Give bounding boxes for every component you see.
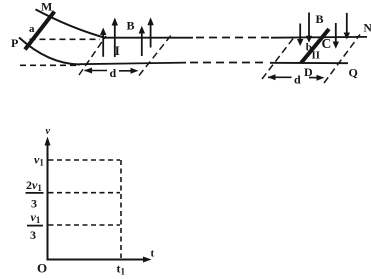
svg-text:d: d	[110, 66, 117, 80]
t axis	[47, 257, 152, 263]
dashed level line under top ramp	[30, 38, 101, 40]
dimension d left: right arrow	[119, 68, 139, 74]
rail P ramp curve (bottom rail left)	[19, 38, 80, 65]
fraction v1/3 bar	[27, 225, 43, 227]
svg-text:P: P	[11, 36, 18, 50]
svg-text:t: t	[151, 248, 155, 260]
field region II right boundary dashed	[324, 35, 360, 84]
rod b between C and D	[301, 29, 329, 63]
svg-text:C: C	[322, 36, 332, 51]
dashed level line 2v1/3	[49, 192, 121, 194]
svg-text:a: a	[29, 23, 35, 35]
fraction 2v1/3 bar	[26, 192, 44, 194]
field arrow up 4	[147, 17, 153, 47]
svg-text:v: v	[46, 126, 51, 137]
svg-text:M: M	[41, 0, 52, 14]
field region I left boundary dashed	[79, 36, 106, 75]
top rail dashed middle segment	[196, 37, 271, 39]
svg-text:B: B	[316, 12, 324, 26]
dashed vertical line at t1	[120, 160, 122, 258]
svg-text:Q: Q	[349, 66, 358, 80]
svg-text:I: I	[115, 43, 120, 58]
bottom rail dashed middle segment	[190, 62, 267, 64]
rod a on ramp	[25, 12, 54, 50]
bottom rail solid right segment ending near Q	[270, 62, 348, 64]
svg-text:3: 3	[30, 228, 36, 242]
dashed level line v1	[49, 159, 121, 161]
svg-text:II: II	[312, 50, 321, 62]
field region I right boundary dashed	[139, 34, 172, 76]
dimension d left: left arrow	[84, 68, 107, 74]
field region II left boundary dashed	[262, 36, 295, 79]
svg-text:d: d	[294, 73, 301, 87]
field arrow down 3	[333, 23, 339, 49]
field arrow down 4	[344, 13, 350, 40]
dashed level line v1/3	[49, 224, 121, 226]
dimension d right: left arrow	[268, 74, 292, 80]
field arrow up 2	[112, 18, 118, 58]
field arrow up 1	[100, 28, 106, 57]
dimension d right: right arrow	[309, 75, 325, 81]
dashed level line under bottom ramp	[20, 64, 76, 66]
top rail solid segment	[103, 37, 193, 39]
svg-text:O: O	[37, 261, 47, 276]
field arrow down 1	[297, 24, 303, 47]
field arrow up 3	[139, 26, 145, 56]
top rail solid right segment ending near N	[271, 36, 367, 39]
field arrow down 2	[306, 13, 312, 43]
bottom rail solid segment	[79, 63, 186, 65]
svg-text:B: B	[127, 19, 135, 33]
rail M ramp curve (top rail left)	[36, 9, 105, 37]
svg-text:N: N	[364, 23, 371, 35]
svg-text:3: 3	[31, 196, 37, 210]
v axis	[45, 137, 51, 260]
